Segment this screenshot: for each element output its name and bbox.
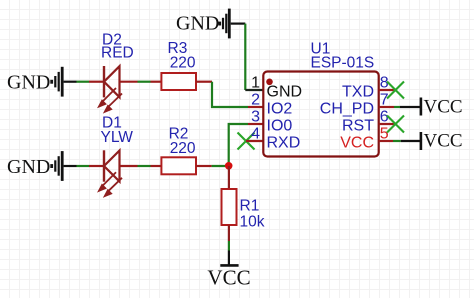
svg-text:RED: RED: [101, 45, 134, 62]
power port VCC bottom: [207, 251, 250, 290]
resistor R1: [222, 166, 237, 241]
pin 8 stub: [379, 89, 396, 91]
power port GND left upper: [7, 67, 77, 97]
svg-text:GND: GND: [267, 83, 303, 100]
svg-text:ESP-01S: ESP-01S: [311, 54, 375, 71]
no-connect X pin 6: [387, 116, 404, 133]
resistor R3: [151, 73, 213, 90]
svg-text:10k: 10k: [240, 213, 265, 230]
IC U1 body: [263, 72, 378, 157]
LED D2: [89, 66, 138, 112]
wire pin 7 to VCC: [394, 106, 400, 108]
svg-text:RXD: RXD: [267, 134, 301, 151]
wire R1 to VCC bottom: [228, 241, 230, 251]
svg-text:IO2: IO2: [267, 100, 293, 117]
resistor R2: [151, 157, 212, 174]
svg-text:VCC: VCC: [424, 96, 463, 117]
pin 1 stub (black): [245, 89, 263, 91]
pin 5 stub: [379, 140, 393, 142]
svg-text:VCC: VCC: [340, 134, 374, 151]
no-connect X pin 8: [387, 82, 404, 99]
pin 4 stub: [246, 140, 264, 142]
pin 3 stub: [248, 123, 264, 125]
svg-text:TXD: TXD: [342, 83, 374, 100]
svg-text:VCC: VCC: [424, 131, 463, 152]
svg-text:CH_PD: CH_PD: [320, 100, 374, 117]
pin 7 stub: [379, 106, 394, 108]
wire junction to pin 3: [229, 124, 248, 166]
wire R2 to junction: [212, 165, 229, 167]
wire GND to D2: [77, 81, 90, 83]
svg-text:GND: GND: [176, 13, 219, 35]
wire GND to D1: [77, 165, 90, 167]
svg-text:YLW: YLW: [101, 129, 134, 146]
wire D1 to R2: [138, 165, 151, 167]
svg-text:3: 3: [251, 109, 260, 126]
no-connect X pin 4: [238, 133, 255, 150]
wire R3 to pin 2: [212, 82, 248, 107]
svg-text:1: 1: [251, 75, 260, 92]
svg-text:GND: GND: [7, 156, 50, 178]
junction dot: [225, 162, 233, 170]
svg-text:R1: R1: [240, 197, 260, 214]
pin 1 marker dot: [266, 79, 273, 86]
power port VCC right lower: [421, 131, 463, 152]
power port GND top: [176, 9, 245, 39]
svg-text:220: 220: [170, 140, 196, 157]
wire D2 to R3: [138, 81, 151, 83]
svg-text:GND: GND: [7, 72, 50, 94]
svg-text:2: 2: [251, 92, 260, 109]
wire GND top to pin 1: [244, 24, 246, 90]
LED D1: [89, 150, 138, 196]
power port GND left lower: [7, 151, 77, 181]
pin 6 stub: [379, 123, 396, 125]
svg-text:VCC: VCC: [207, 265, 250, 289]
svg-text:220: 220: [170, 55, 196, 72]
svg-text:RST: RST: [342, 117, 374, 134]
svg-text:4: 4: [251, 126, 260, 143]
svg-text:IO0: IO0: [267, 117, 293, 134]
wire pin 5 to VCC: [393, 140, 401, 142]
power port VCC right upper: [421, 96, 463, 117]
pin 2 stub: [248, 106, 264, 108]
